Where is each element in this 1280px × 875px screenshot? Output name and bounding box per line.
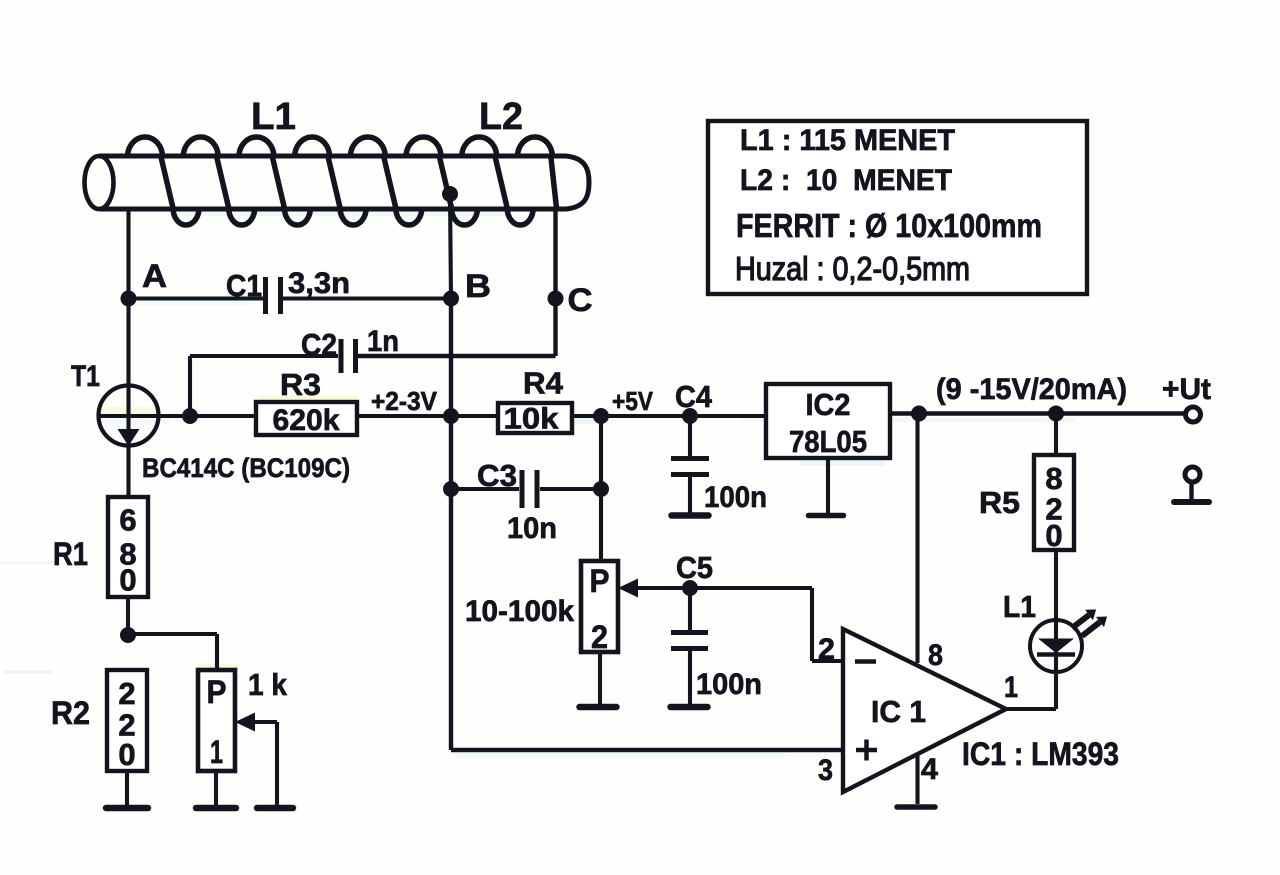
svg-text:(9 -15V/20mA): (9 -15V/20mA)	[936, 373, 1127, 406]
svg-text:R5: R5	[979, 485, 1020, 520]
svg-text:3,3n: 3,3n	[288, 267, 350, 300]
svg-text:0: 0	[118, 737, 135, 772]
svg-text:C4: C4	[675, 379, 713, 414]
svg-text:2: 2	[591, 619, 608, 655]
svg-text:10k: 10k	[504, 403, 559, 436]
svg-text:L1 : 115 MENET: L1 : 115 MENET	[740, 124, 955, 157]
svg-text:2: 2	[818, 633, 835, 666]
svg-text:A: A	[142, 258, 167, 294]
svg-text:L2 : 10 MENET: L2 : 10 MENET	[740, 164, 952, 197]
svg-text:T1: T1	[71, 360, 100, 393]
svg-text:L2: L2	[479, 96, 523, 138]
svg-text:BC414C (BC109C): BC414C (BC109C)	[142, 453, 350, 483]
svg-text:L1: L1	[1003, 589, 1036, 624]
svg-text:10-100k: 10-100k	[465, 595, 574, 628]
svg-text:R4: R4	[523, 366, 564, 401]
svg-text:L1: L1	[251, 96, 296, 138]
svg-text:R2: R2	[51, 695, 90, 731]
svg-text:1: 1	[1004, 671, 1018, 704]
svg-text:8: 8	[928, 639, 943, 672]
svg-text:100n: 100n	[704, 481, 767, 514]
svg-text:R3: R3	[280, 367, 321, 402]
svg-text:C2: C2	[301, 327, 337, 362]
svg-text:R1: R1	[53, 536, 88, 572]
svg-text:78L05: 78L05	[789, 424, 867, 459]
svg-text:FERRIT : Ø 10x100mm: FERRIT : Ø 10x100mm	[736, 207, 1042, 244]
svg-text:1 k: 1 k	[248, 667, 288, 702]
svg-text:0: 0	[119, 563, 136, 598]
svg-text:IC 1: IC 1	[871, 694, 926, 729]
svg-text:0: 0	[1045, 518, 1062, 553]
svg-text:100n: 100n	[696, 668, 762, 701]
svg-text:C5: C5	[676, 550, 713, 585]
svg-text:C3: C3	[477, 458, 517, 493]
svg-text:+Ut: +Ut	[1162, 373, 1211, 406]
svg-text:+2-3V: +2-3V	[371, 386, 438, 416]
svg-text:IC2: IC2	[806, 387, 851, 422]
svg-text:4: 4	[921, 753, 938, 786]
svg-text:10n: 10n	[507, 512, 557, 545]
svg-text:P: P	[207, 674, 227, 710]
svg-text:3: 3	[818, 754, 833, 787]
svg-text:Huzal : 0,2-0,5mm: Huzal : 0,2-0,5mm	[735, 250, 970, 287]
svg-text:C1: C1	[226, 268, 262, 303]
svg-text:2: 2	[118, 676, 135, 711]
svg-text:IC1 : LM393: IC1 : LM393	[962, 736, 1119, 772]
svg-text:+5V: +5V	[612, 386, 654, 416]
svg-text:B: B	[465, 268, 491, 304]
svg-text:P: P	[590, 563, 610, 599]
svg-text:C: C	[568, 282, 593, 318]
svg-text:1: 1	[210, 734, 223, 770]
svg-text:1n: 1n	[367, 325, 399, 358]
svg-text:6: 6	[119, 503, 136, 538]
svg-text:620k: 620k	[273, 404, 340, 437]
